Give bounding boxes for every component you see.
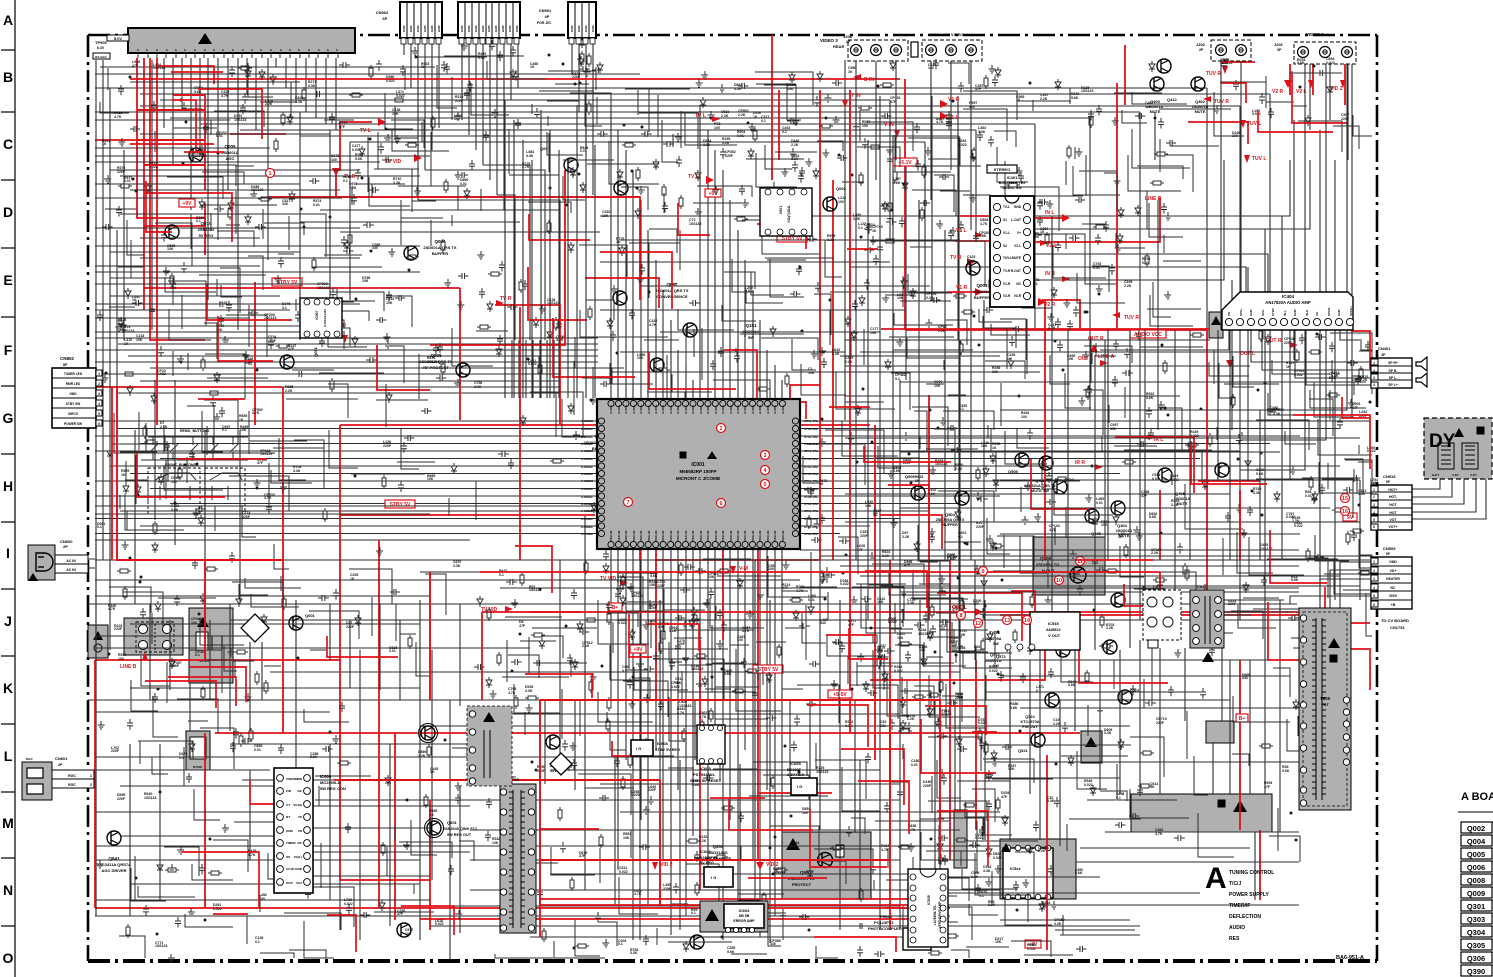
svg-text:5W REG CON: 5W REG CON xyxy=(320,786,346,791)
svg-text:XTAL-PAL: XTAL-PAL xyxy=(804,457,819,461)
svg-text:5.6K: 5.6K xyxy=(171,508,179,512)
svg-text:A-VOL: A-VOL xyxy=(661,405,665,415)
svg-text:3.3K: 3.3K xyxy=(967,259,975,263)
svg-text:47F: 47F xyxy=(1145,105,1152,109)
svg-text:RGC: RGC xyxy=(68,783,76,787)
svg-text:GND: GND xyxy=(430,25,434,33)
svg-text:RGC: RGC xyxy=(26,757,34,761)
svg-text:A-VOL: A-VOL xyxy=(714,405,718,415)
svg-text:3: 3 xyxy=(1030,649,1032,653)
svg-text:T510: T510 xyxy=(1152,584,1162,589)
svg-text:47F: 47F xyxy=(132,64,139,68)
svg-text:0.1: 0.1 xyxy=(282,306,287,310)
svg-text:VCC-IN: VCC-IN xyxy=(661,531,665,541)
svg-text:2SD601A: 2SD601A xyxy=(1192,105,1209,109)
svg-text:Q905: Q905 xyxy=(905,474,916,479)
svg-text:3: 3 xyxy=(1373,503,1375,507)
svg-text:P: P xyxy=(183,49,187,51)
svg-text:BA033F: BA033F xyxy=(787,768,802,772)
deflection yoke DY xyxy=(1424,418,1492,479)
svg-text:IC545: IC545 xyxy=(1048,621,1059,626)
svg-text:6: 6 xyxy=(1373,525,1375,529)
svg-text:CT: CT xyxy=(286,803,290,807)
svg-text:CN1751: CN1751 xyxy=(1390,625,1405,630)
svg-text:3.3K: 3.3K xyxy=(845,724,853,728)
svg-text:XTAL-PAL: XTAL-PAL xyxy=(804,427,819,431)
svg-text:200V: 200V xyxy=(1389,594,1398,598)
svg-text:10K: 10K xyxy=(870,331,877,335)
svg-text:RMR LED: RMR LED xyxy=(66,382,81,386)
svg-text:A-VOL: A-VOL xyxy=(676,405,680,415)
svg-text:5.6K: 5.6K xyxy=(724,672,732,676)
svg-text:RT: RT xyxy=(286,815,290,819)
svg-text:1K: 1K xyxy=(872,229,877,233)
svg-text:6P: 6P xyxy=(383,16,388,21)
svg-text:BUFFER: BUFFER xyxy=(432,251,448,256)
svg-text:5.6K: 5.6K xyxy=(355,157,363,161)
svg-text:VCC-IN: VCC-IN xyxy=(624,531,628,541)
connector CN401 speaker out xyxy=(1371,358,1412,388)
transistor Q602 mosfet xyxy=(421,726,435,740)
svg-text:0.1: 0.1 xyxy=(118,322,123,326)
svg-text:100: 100 xyxy=(737,638,743,642)
svg-text:GND: GND xyxy=(1293,309,1297,317)
svg-text:2: 2 xyxy=(1373,495,1375,499)
svg-text:3.3K: 3.3K xyxy=(474,385,482,389)
svg-text:P: P xyxy=(231,49,235,51)
svg-text:TUNER LED: TUNER LED xyxy=(64,372,83,376)
svg-text:47F: 47F xyxy=(257,461,264,465)
svg-text:47F: 47F xyxy=(1264,785,1271,789)
svg-text:V2 R: V2 R xyxy=(1272,89,1284,95)
svg-text:10K: 10K xyxy=(787,87,794,91)
svg-text:2: 2 xyxy=(719,426,722,432)
svg-text:STBY 5V RESET: STBY 5V RESET xyxy=(690,778,722,783)
svg-text:VC2: VC2 xyxy=(296,881,302,885)
svg-text:220F: 220F xyxy=(648,788,657,792)
svg-text:1K: 1K xyxy=(121,473,126,477)
svg-text:2: 2 xyxy=(1373,369,1375,373)
transistor Q521 xyxy=(1031,733,1045,747)
svg-text:0.1: 0.1 xyxy=(761,119,766,123)
table row Q390 xyxy=(1461,965,1492,976)
svg-text:Q304: Q304 xyxy=(1467,928,1486,937)
svg-text:3.3K: 3.3K xyxy=(1047,799,1055,803)
tuner pin descender wires xyxy=(164,58,336,240)
table row Q006 xyxy=(1461,861,1492,872)
svg-text:P: P xyxy=(155,49,159,51)
svg-text:P: P xyxy=(259,49,263,51)
svg-text:A-VOL: A-VOL xyxy=(639,405,643,415)
front buttons cluster xyxy=(148,468,200,514)
svg-text:330: 330 xyxy=(791,844,797,848)
svg-text:1SS133: 1SS133 xyxy=(773,871,786,875)
svg-text:J200: J200 xyxy=(930,32,940,37)
svg-text:VID 2: VID 2 xyxy=(660,862,673,868)
svg-text:DEFLECTION: DEFLECTION xyxy=(1229,914,1261,920)
svg-text:V+: V+ xyxy=(1017,231,1021,235)
svg-text:0.022: 0.022 xyxy=(671,685,680,689)
svg-text:0.1: 0.1 xyxy=(622,669,627,673)
svg-text:LINE A: LINE A xyxy=(1098,354,1115,360)
svg-text:220F: 220F xyxy=(1341,117,1350,121)
svg-text:0.01: 0.01 xyxy=(808,598,815,602)
svg-text:2: 2 xyxy=(90,783,92,787)
label 5.0V box xyxy=(107,35,129,41)
svg-text:A-MSBC: A-MSBC xyxy=(581,427,594,431)
svg-text:4.7K: 4.7K xyxy=(677,711,685,715)
svg-text:GND: GND xyxy=(508,25,512,33)
svg-text:10K: 10K xyxy=(877,600,884,604)
svg-text:4.7K: 4.7K xyxy=(221,94,229,98)
svg-text:3: 3 xyxy=(1373,577,1375,581)
svg-text:1K: 1K xyxy=(848,70,853,74)
svg-text:0.1: 0.1 xyxy=(1116,796,1121,800)
transistor Q572 xyxy=(1103,640,1117,654)
svg-text:SP R-: SP R- xyxy=(1389,369,1398,373)
svg-text:TV VID: TV VID xyxy=(600,576,617,582)
red wire texture xyxy=(130,62,1370,952)
svg-text:10K: 10K xyxy=(934,384,941,388)
svg-text:10K: 10K xyxy=(167,247,174,251)
svg-text:1SS133: 1SS133 xyxy=(547,301,560,305)
svg-text:RGC: RGC xyxy=(68,774,76,778)
svg-text:220F: 220F xyxy=(649,606,658,610)
svg-text:A-MSBC: A-MSBC xyxy=(581,435,594,439)
svg-text:220F: 220F xyxy=(114,627,123,631)
svg-text:1K: 1K xyxy=(239,418,244,422)
svg-text:3.3K: 3.3K xyxy=(453,564,461,568)
svg-text:0.1: 0.1 xyxy=(858,226,863,230)
svg-text:10K: 10K xyxy=(216,328,223,332)
svg-text:VCC-IN: VCC-IN xyxy=(676,531,680,541)
svg-text:0.022: 0.022 xyxy=(435,922,444,926)
svg-text:2SB709A QS TX: 2SB709A QS TX xyxy=(936,518,965,522)
svg-text:TIMER/IF: TIMER/IF xyxy=(1229,903,1250,909)
svg-text:0.1: 0.1 xyxy=(429,813,434,817)
svg-text:P: P xyxy=(250,49,254,51)
svg-text:TO CV BOARD: TO CV BOARD xyxy=(1381,618,1409,623)
table row Q303 xyxy=(1461,913,1492,924)
svg-text:PHOTOCOUPLER: PHOTOCOUPLER xyxy=(868,926,902,931)
svg-text:XTAL-PAL: XTAL-PAL xyxy=(804,479,819,483)
svg-text:MUTE: MUTE xyxy=(1150,110,1161,114)
svg-text:A-VOL: A-VOL xyxy=(669,405,673,415)
IC IC655 3.3V reg xyxy=(791,778,817,795)
transistor Q435 xyxy=(1085,509,1099,523)
svg-text:2.2K: 2.2K xyxy=(902,535,910,539)
transistor Q505 buffer xyxy=(1015,453,1029,467)
IC404 pin1 gray patch xyxy=(1209,312,1223,338)
table row Q304 xyxy=(1461,926,1492,937)
svg-text:P: P xyxy=(203,49,207,51)
svg-text:47F: 47F xyxy=(519,624,526,628)
svg-text:TV VID: TV VID xyxy=(385,159,402,165)
svg-text:IC605: IC605 xyxy=(700,766,711,771)
svg-text:Q002: Q002 xyxy=(836,186,847,191)
svg-text:1SS133: 1SS133 xyxy=(155,944,168,948)
svg-text:VS: VS xyxy=(298,815,302,819)
svg-text:3.3K: 3.3K xyxy=(853,217,861,221)
IC IC603 5V reg xyxy=(704,867,733,887)
svg-text:8: 8 xyxy=(959,613,962,619)
svg-text:MICRONT C J/COMB: MICRONT C J/COMB xyxy=(676,476,721,481)
driver transformer T510 xyxy=(1143,590,1181,640)
transformer T602 xyxy=(467,706,512,786)
svg-text:2.2K: 2.2K xyxy=(955,467,963,471)
svg-text:Q005: Q005 xyxy=(1467,850,1485,859)
svg-text:1: 1 xyxy=(268,171,271,177)
svg-text:100: 100 xyxy=(862,124,868,128)
svg-text:IC001: IC001 xyxy=(691,462,705,468)
svg-text:0.01: 0.01 xyxy=(911,763,918,767)
svg-text:2.2K: 2.2K xyxy=(265,102,273,106)
svg-text:16: 16 xyxy=(1342,509,1348,515)
svg-text:MUTE: MUTE xyxy=(1195,110,1206,114)
relay patch RY600 xyxy=(186,731,210,770)
connector CN600 rows xyxy=(55,555,88,564)
svg-text:2.2K: 2.2K xyxy=(1151,551,1159,555)
svg-text:DB 5B: DB 5B xyxy=(739,914,750,918)
svg-text:47F: 47F xyxy=(1001,795,1008,799)
svg-text:0.1: 0.1 xyxy=(1036,689,1041,693)
svg-text:1K: 1K xyxy=(1016,98,1021,102)
svg-text:A-VOL: A-VOL xyxy=(766,405,770,415)
svg-text:0.022: 0.022 xyxy=(1294,524,1303,528)
svg-text:GND: GND xyxy=(437,25,441,33)
IC IC545 V out xyxy=(1030,612,1080,650)
svg-text:BUR2955F09: BUR2955F09 xyxy=(694,856,717,860)
svg-text:SPC+: SPC+ xyxy=(1239,308,1243,316)
svg-text:220F: 220F xyxy=(1156,721,1165,725)
svg-text:A-VOL: A-VOL xyxy=(721,405,725,415)
svg-text:10K: 10K xyxy=(362,279,369,283)
svg-text:E: E xyxy=(3,272,12,288)
svg-text:BJR2750R TE2: BJR2750R TE2 xyxy=(999,181,1026,185)
svg-text:VG(L): VG(L) xyxy=(294,855,302,859)
svg-text:P: P xyxy=(326,49,330,51)
svg-text:5W: 5W xyxy=(993,642,999,646)
svg-text:K: K xyxy=(3,680,13,696)
svg-text:NC: NC xyxy=(1391,586,1396,590)
svg-text:1SS133: 1SS133 xyxy=(689,222,702,226)
svg-text:2SD2144S: 2SD2144S xyxy=(708,850,728,855)
svg-text:1K: 1K xyxy=(915,479,920,483)
svg-text:GND: GND xyxy=(584,25,588,33)
svg-text:0.01: 0.01 xyxy=(1142,261,1149,265)
svg-text:5.6K: 5.6K xyxy=(1071,96,1079,100)
svg-text:C: C xyxy=(3,136,13,152)
svg-text:0.01: 0.01 xyxy=(985,776,992,780)
H-out transistor block Q508 xyxy=(1033,537,1105,595)
svg-text:A-VOL: A-VOL xyxy=(729,405,733,415)
svg-text:0.1: 0.1 xyxy=(691,911,696,915)
svg-text:0.01: 0.01 xyxy=(658,625,665,629)
svg-text:AGC: AGC xyxy=(226,156,235,161)
svg-text:13: 13 xyxy=(1004,618,1010,624)
svg-text:10K: 10K xyxy=(808,371,815,375)
svg-text:2.2K: 2.2K xyxy=(1124,284,1132,288)
svg-text:IR R: IR R xyxy=(1075,460,1085,466)
svg-text:47F: 47F xyxy=(973,602,980,606)
central vertical bus wires xyxy=(845,60,984,620)
svg-text:CN901: CN901 xyxy=(539,8,552,13)
svg-text:P: P xyxy=(335,49,339,51)
red main bundle reinforcement xyxy=(117,90,1240,905)
row I horizontal bundle wires xyxy=(95,506,1371,592)
svg-text:A-MSBC: A-MSBC xyxy=(581,509,594,513)
svg-text:V2 R: V2 R xyxy=(1044,302,1056,308)
table row Q306 xyxy=(1461,952,1492,963)
svg-text:REMO_BUTTONS: REMO_BUTTONS xyxy=(180,429,210,433)
svg-text:+5-5V: +5-5V xyxy=(833,692,847,698)
svg-text:A-MSBC: A-MSBC xyxy=(581,479,594,483)
svg-text:1SS133: 1SS133 xyxy=(234,118,247,122)
svg-text:0.022: 0.022 xyxy=(618,621,627,625)
svg-text:4.7K: 4.7K xyxy=(264,496,272,500)
svg-text:47F: 47F xyxy=(1352,406,1359,410)
IC IC505 vertical drive xyxy=(908,869,948,947)
svg-text:PH602: PH602 xyxy=(880,914,893,919)
bridge rectifier D66x xyxy=(550,753,572,775)
svg-text:V OUT: V OUT xyxy=(1048,633,1061,638)
svg-text:VCC-IN: VCC-IN xyxy=(617,531,621,541)
svg-text:REAR: REAR xyxy=(833,44,844,49)
svg-text:P: P xyxy=(307,49,311,51)
svg-text:4.7K: 4.7K xyxy=(796,589,804,593)
svg-text:IN-L: IN-L xyxy=(1283,310,1287,316)
svg-text:P: P xyxy=(145,49,149,51)
svg-text:GND: GND xyxy=(1389,560,1397,564)
svg-text:0.1: 0.1 xyxy=(895,377,900,381)
svg-text:3P VIDEOL: 3P VIDEOL xyxy=(945,32,966,37)
svg-text:10K: 10K xyxy=(865,504,872,508)
svg-text:0.022: 0.022 xyxy=(631,793,640,797)
svg-text:FOR JIG: FOR JIG xyxy=(537,21,551,25)
svg-text:3.3K: 3.3K xyxy=(293,469,301,473)
svg-text:KIA(?)4S41: KIA(?)4S41 xyxy=(787,205,791,222)
svg-text:VIDEO 2: VIDEO 2 xyxy=(1306,32,1324,37)
svg-text:A-MSBC: A-MSBC xyxy=(581,457,594,461)
svg-text:5W: 5W xyxy=(748,335,754,340)
svg-text:1K: 1K xyxy=(1118,535,1123,539)
svg-text:SPC-: SPC- xyxy=(1261,309,1265,316)
svg-text:A: A xyxy=(1205,862,1227,895)
svg-text:4.7K: 4.7K xyxy=(742,629,750,633)
svg-text:10K: 10K xyxy=(136,338,143,342)
svg-text:4P: 4P xyxy=(545,14,550,19)
svg-text:0.1: 0.1 xyxy=(979,894,984,898)
svg-text:1K: 1K xyxy=(421,65,426,69)
svg-text:VCC-IN: VCC-IN xyxy=(729,531,733,541)
right area connection wires xyxy=(830,160,1486,610)
connector CN901 xyxy=(568,2,596,38)
svg-text:2.2K: 2.2K xyxy=(1053,722,1061,726)
svg-text:0.1: 0.1 xyxy=(195,653,200,657)
svg-text:4.7K: 4.7K xyxy=(114,115,122,119)
svg-text:A-VOL: A-VOL xyxy=(736,405,740,415)
svg-text:4: 4 xyxy=(1018,649,1020,653)
svg-text:S2: S2 xyxy=(1003,244,1007,248)
svg-text:L-OUT: L-OUT xyxy=(1011,218,1021,222)
svg-text:A-VOL: A-VOL xyxy=(609,405,613,415)
svg-text:1SS133: 1SS133 xyxy=(1081,89,1094,93)
svg-text:SIRCS: SIRCS xyxy=(68,412,78,416)
transistor Q603 xyxy=(427,821,441,835)
svg-text:330: 330 xyxy=(372,246,378,250)
svg-text:A-MSBC: A-MSBC xyxy=(581,472,594,476)
svg-text:HEATER: HEATER xyxy=(1386,577,1400,581)
svg-text:+9V: +9V xyxy=(633,647,643,653)
svg-text:STBY 5V REG: STBY 5V REG xyxy=(655,748,680,752)
svg-text:1K: 1K xyxy=(350,577,355,581)
svg-text:2P: 2P xyxy=(63,544,68,549)
svg-text:1: 1 xyxy=(1373,488,1375,492)
svg-text:1SS133: 1SS133 xyxy=(957,650,970,654)
svg-text:VCC-IN: VCC-IN xyxy=(781,531,785,541)
svg-text:GND: GND xyxy=(423,25,427,33)
svg-text:A-VOL: A-VOL xyxy=(743,405,747,415)
svg-text:M: M xyxy=(2,815,14,831)
connector CN505 xyxy=(1371,557,1412,609)
jack panel J201 VIDEO 2 xyxy=(1294,42,1356,64)
svg-text:2.2K: 2.2K xyxy=(926,296,934,300)
svg-text:AN17820A AUDIO AMP: AN17820A AUDIO AMP xyxy=(1265,300,1311,305)
long vertical bus to IC001 top-left xyxy=(505,100,595,398)
transistor Q411 mute sw xyxy=(1039,456,1053,470)
svg-text:5.6K: 5.6K xyxy=(893,181,901,185)
svg-text:XTAL-PAL: XTAL-PAL xyxy=(804,517,819,521)
svg-text:4: 4 xyxy=(1373,511,1375,515)
svg-text:1SS133: 1SS133 xyxy=(816,770,829,774)
svg-text:AUDIO: AUDIO xyxy=(1229,925,1245,931)
svg-text:4.7K: 4.7K xyxy=(1048,326,1056,330)
AC inlet CN600 xyxy=(28,545,55,580)
svg-text:0.1: 0.1 xyxy=(959,407,964,411)
svg-text:10K: 10K xyxy=(708,575,715,579)
svg-text:5: 5 xyxy=(1373,594,1375,598)
svg-text:A-MSBC: A-MSBC xyxy=(581,487,594,491)
svg-text:3.3K: 3.3K xyxy=(525,689,533,693)
svg-text:0.022: 0.022 xyxy=(989,669,998,673)
svg-text:330: 330 xyxy=(770,942,776,946)
svg-text:0.022: 0.022 xyxy=(619,870,628,874)
svg-text:Q002: Q002 xyxy=(1467,824,1485,833)
svg-text:10K: 10K xyxy=(1008,767,1015,771)
svg-text:TUV R: TUV R xyxy=(1206,71,1221,77)
svg-text:1K: 1K xyxy=(102,142,107,146)
svg-text:V3-R: V3-R xyxy=(1014,294,1022,298)
svg-text:2.2K: 2.2K xyxy=(845,360,853,364)
svg-text:R-OUT: R-OUT xyxy=(1011,269,1021,273)
svg-text:Q521: Q521 xyxy=(1018,748,1029,753)
svg-text:AC IN: AC IN xyxy=(66,568,76,572)
svg-text:P: P xyxy=(193,49,197,51)
svg-text:V-DY: V-DY xyxy=(1452,473,1459,477)
svg-text:100: 100 xyxy=(1021,415,1027,419)
svg-text:0.022: 0.022 xyxy=(1367,449,1376,453)
video2 jack descender wires xyxy=(856,61,1347,470)
svg-text:10K: 10K xyxy=(405,932,412,936)
svg-text:Q601: Q601 xyxy=(447,820,458,825)
svg-text:Q505: Q505 xyxy=(1008,469,1019,474)
svg-text:3.3K: 3.3K xyxy=(703,143,711,147)
svg-text:IC600: IC600 xyxy=(320,774,332,779)
svg-text:220F: 220F xyxy=(955,696,964,700)
transistor Q402 mute xyxy=(1191,77,1205,91)
svg-text:Q601: Q601 xyxy=(305,613,316,618)
svg-text:220F: 220F xyxy=(976,525,985,529)
